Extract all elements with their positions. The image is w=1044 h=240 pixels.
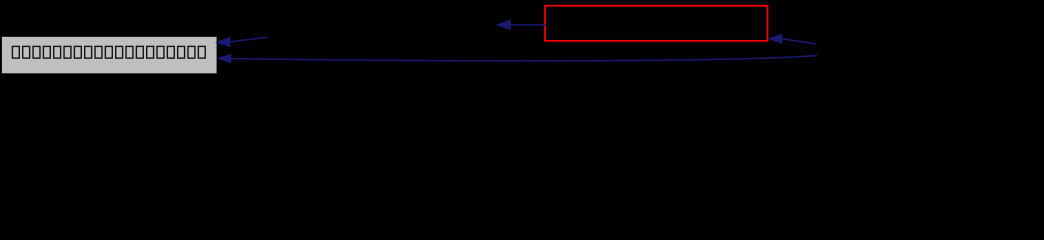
edge E4: from invisible right node into node N2 right side (arrow) [769, 34, 816, 44]
edge E2: from invisible middle node into node N1 upper arrow [217, 37, 268, 46]
node N1 label: row of 19 missing-glyph (tofu) boxes [12, 46, 205, 58]
edge E1: from node N2 left side to invisible middle node (arrow) [497, 20, 546, 29]
node N2: red-bordered box (truncated node, label invisible) [545, 6, 768, 41]
node N1: gray filled function box [2, 37, 217, 74]
edge E3: long spline from invisible right node into node N1 lower arrow [218, 55, 817, 63]
